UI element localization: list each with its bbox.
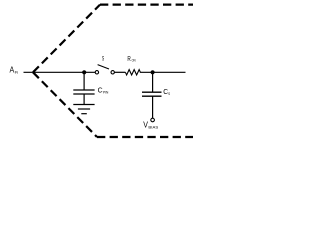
- svg-text:R: R: [127, 54, 130, 63]
- svg-text:PIN: PIN: [103, 91, 109, 95]
- switch S: [95, 65, 114, 74]
- svg-text:IN: IN: [15, 70, 19, 74]
- wire junction 1 down to C_PIN: [83, 72, 85, 90]
- label R_ON: [127, 54, 136, 63]
- wire C_PIN to ground: [83, 94, 85, 105]
- svg-text:S: S: [102, 55, 104, 62]
- capacitor C_S: [142, 92, 162, 96]
- label C_PIN: [98, 85, 109, 94]
- wire resistor to junction 2: [140, 71, 186, 73]
- terminal circle V_BIAS: [151, 118, 155, 122]
- wire A_IN to switch: [24, 71, 96, 73]
- dashed device outline bottom diagonal: [33, 72, 97, 137]
- wire C_S to V_BIAS terminal: [152, 96, 154, 118]
- capacitor C_PIN: [73, 90, 94, 94]
- wire junction 2 down to C_S: [152, 72, 154, 92]
- node junction 2: [151, 70, 155, 74]
- node junction 1: [82, 70, 86, 74]
- dashed device outline top horizontal: [100, 3, 193, 5]
- svg-text:ON: ON: [132, 58, 136, 62]
- label V_BIAS: [143, 120, 159, 129]
- label A_IN: [10, 66, 19, 75]
- label S: [102, 55, 104, 62]
- resistor R_ON: [125, 70, 140, 75]
- ground: [73, 105, 94, 114]
- svg-text:BIAS: BIAS: [148, 126, 158, 130]
- dashed device outline bottom horizontal: [97, 136, 193, 138]
- wire switch to resistor: [114, 71, 125, 73]
- dashed device outline top diagonal: [33, 5, 100, 73]
- label C_S: [163, 87, 170, 96]
